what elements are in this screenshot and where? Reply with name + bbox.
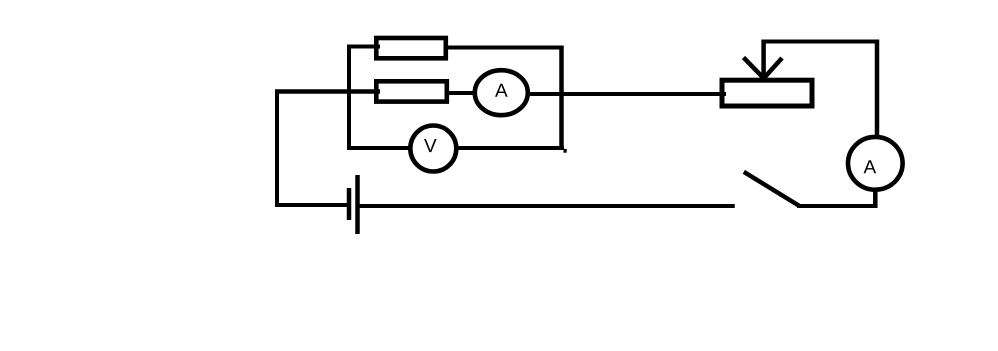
wire: left horizontal into resistor R2 row [275, 89, 380, 94]
wire: from ammeter A1 to rheostat, crossing right inner vertical [527, 92, 726, 96]
wire: overshoot nub at inner-loop bottom-right corner [564, 149, 567, 153]
switch lever (open) [744, 172, 800, 206]
wire: from resistor R1 right side to right inner vertical [444, 46, 564, 50]
wire: from inner-left vertical to voltmeter V [349, 146, 412, 150]
wire: from voltmeter V to right inner vertical [455, 146, 564, 150]
resistor R1 (top) [376, 38, 446, 58]
rheostat wiper arrowhead right stroke [765, 58, 783, 78]
ammeter A1 circle [475, 70, 528, 115]
resistor R2 (middle) [376, 81, 447, 101]
ammeter A1 label [495, 84, 508, 97]
voltmeter V circle [410, 126, 456, 172]
wire: inner-left vertical joining R1, R2 and voltmeter rows [347, 45, 351, 151]
battery negative plate (short) [347, 188, 352, 220]
rheostat body (variable resistor) [722, 80, 812, 106]
rheostat wiper arrowhead left stroke [744, 58, 764, 78]
rheostat wiper vertical lead [761, 40, 766, 81]
wire: right inner vertical joining R1 row and voltmeter row [559, 46, 564, 151]
wire: bottom-left horizontal from left vertical to battery negative plate [275, 203, 347, 207]
wire: stub from ammeter A2 bottom to bottom wire [873, 188, 878, 208]
wire: from resistor R2 to ammeter A1 [447, 91, 476, 95]
battery positive plate (long) [355, 175, 360, 234]
wire: bottom horizontal from battery positive plate to switch [359, 204, 735, 208]
wire: top-right horizontal from wiper to right vertical [764, 40, 879, 44]
wire: bottom-right horizontal from switch to A2 stub [797, 204, 878, 208]
ammeter A2 label [864, 160, 877, 173]
wire: outer left vertical [275, 90, 279, 208]
ammeter A2 circle [848, 137, 903, 190]
wire: top wire from inner-left vertical to resistor R1 [349, 45, 380, 49]
wire: right vertical down to ammeter A2 [875, 40, 880, 138]
voltmeter V label [424, 139, 437, 152]
